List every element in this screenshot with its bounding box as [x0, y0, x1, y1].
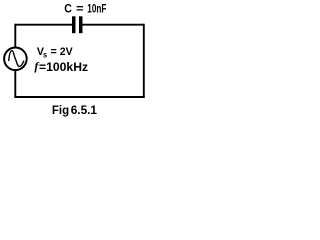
label f = 100kHz	[34, 59, 88, 73]
svg-text:=: =	[76, 2, 83, 16]
svg-text:Vs = 2V: Vs = 2V	[37, 46, 73, 60]
svg-text:f=100kHz: f=100kHz	[34, 59, 88, 73]
svg-text:Fig: Fig	[52, 105, 69, 117]
AC source V1 sine wave	[9, 51, 24, 67]
svg-text:6.5.1: 6.5.1	[71, 104, 98, 117]
capacitor C1 right plate	[79, 16, 83, 33]
svg-text:C: C	[64, 3, 72, 16]
label C value: C = 10nF	[64, 3, 72, 16]
wire top-left horizontal segment	[15, 24, 72, 26]
wire left vertical lower segment	[14, 70, 16, 97]
AC source V1 circle	[4, 48, 27, 71]
wire bottom horizontal	[14, 96, 144, 98]
wire right vertical	[143, 24, 145, 97]
wire top-right horizontal segment	[83, 24, 144, 26]
capacitor C1 left plate	[72, 16, 76, 33]
label Vs = 2V	[37, 46, 73, 60]
wire left vertical upper segment	[14, 24, 16, 48]
caption Fig 6.5.1	[52, 105, 69, 117]
svg-text:10nF: 10nF	[87, 3, 106, 16]
